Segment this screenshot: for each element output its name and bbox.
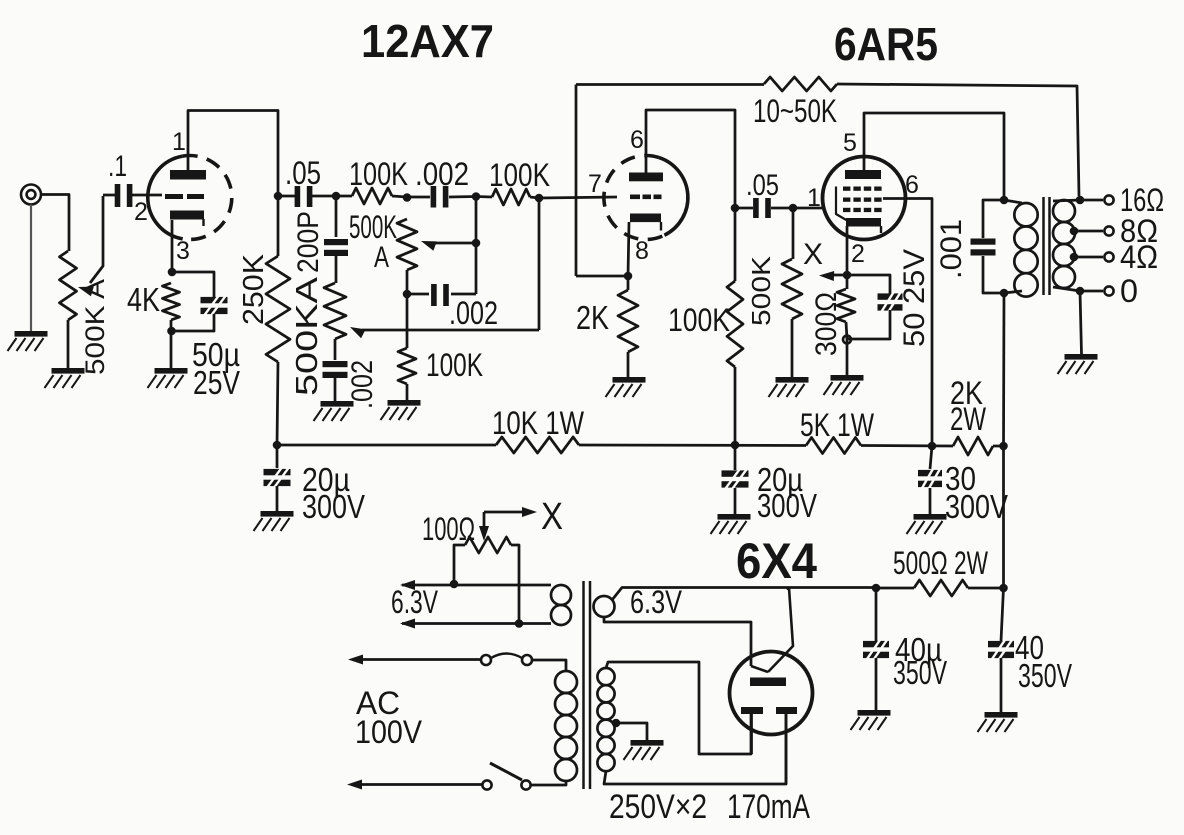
- svg-text:350V: 350V: [1018, 657, 1072, 694]
- svg-text:100Ω: 100Ω: [422, 511, 475, 547]
- tube type label 6AR5: [834, 18, 938, 70]
- svg-text:2K: 2K: [576, 299, 609, 336]
- tube V1a envelope (solid left arc): [148, 156, 183, 239]
- node secondary top 16 ohm: [1076, 196, 1085, 205]
- svg-text:.002: .002: [415, 156, 469, 192]
- label 20u first: [302, 461, 350, 498]
- label 20u second: [757, 461, 803, 498]
- wire jack to volume pot top: [41, 195, 69, 252]
- wiper arrow of 500K A treble: [421, 241, 476, 251]
- ground under 20u first: [254, 511, 294, 531]
- node 4 ohm tap: [1070, 253, 1079, 262]
- svg-text:10~50K: 10~50K: [753, 93, 837, 129]
- pin label 2 V1a: [134, 198, 148, 226]
- svg-text:10K 1W: 10K 1W: [492, 405, 585, 441]
- label 250Vx2: [609, 788, 707, 826]
- label 100K second: [489, 157, 550, 193]
- svg-text:1: 1: [172, 128, 186, 156]
- cathode of V1a: [170, 211, 204, 227]
- capacitor 20u 300V first: [264, 445, 291, 487]
- pin label 8 V1b: [635, 237, 649, 265]
- wire primary bottom down to B+ right: [1002, 293, 1005, 446]
- wire hum pot left leg: [454, 545, 465, 584]
- wire 20u second to ground: [734, 488, 737, 514]
- label 300 ohm vertical: [810, 292, 843, 356]
- wire 16 ohm tap: [1080, 199, 1103, 202]
- svg-text:6: 6: [630, 126, 644, 154]
- switch in AC line: [482, 763, 530, 790]
- tube type label 6X4: [736, 533, 817, 589]
- svg-text:2W: 2W: [950, 401, 987, 437]
- svg-text:7: 7: [588, 170, 602, 198]
- heater winding 6.3V right: [594, 596, 615, 617]
- wire V1b plate up to plate load: [646, 110, 735, 204]
- wire primary bottom to switch: [531, 781, 566, 785]
- label .05 second: [746, 169, 779, 202]
- wire cathode to cap 50u: [172, 272, 214, 297]
- ground under 300 ohm: [824, 375, 864, 395]
- right plate of V3: [776, 707, 797, 714]
- plate of V2: [845, 170, 881, 179]
- resistor 2K 2W: [953, 437, 993, 455]
- node 6.3V bottom: [515, 619, 524, 628]
- label 100K plate load: [668, 302, 730, 338]
- wire cathode to cap 50/25V: [847, 275, 890, 294]
- node B2: [403, 290, 412, 299]
- capacitor .1: [115, 184, 133, 207]
- svg-text:500KA: 500KA: [289, 277, 324, 396]
- label 350V second: [1018, 657, 1072, 694]
- wire rectifier cathode line: [612, 588, 876, 601]
- svg-text:0: 0: [1120, 273, 1138, 309]
- wire volume wiper to cap .1: [103, 194, 116, 197]
- svg-text:6.3V: 6.3V: [630, 584, 683, 620]
- wire switch to AC bottom arrow: [355, 783, 482, 786]
- resistor 500K grid leak: [782, 208, 802, 377]
- svg-text:2: 2: [134, 198, 148, 226]
- wire heater return: [604, 617, 751, 666]
- wire V1b cathode down: [628, 222, 629, 276]
- svg-text:2: 2: [851, 240, 865, 268]
- wire 6.3V top lead: [402, 584, 551, 587]
- node V2 cathode bottom: [843, 336, 851, 344]
- svg-text:100K: 100K: [349, 156, 408, 192]
- wire cap .1 to V1a grid: [131, 194, 162, 197]
- tube V1a envelope (dashed right arc): [183, 156, 232, 240]
- svg-text:3: 3: [176, 237, 190, 265]
- resistor 2K V1b cathode: [618, 276, 638, 377]
- wire 500KA pot to cap .002 lower: [334, 339, 337, 360]
- wire secondary to ground: [1080, 291, 1082, 354]
- wire cap 50/25V to bottom node: [847, 310, 890, 339]
- wire node T4 to V1b grid: [539, 197, 617, 198]
- wire cathode to feedback riser: [576, 275, 628, 278]
- label 300V third: [945, 488, 1008, 525]
- terminal 0: [1104, 286, 1113, 295]
- node HV center tap: [612, 719, 621, 728]
- HV secondary winding 250Vx2: [597, 668, 614, 771]
- label 6.3V left: [391, 584, 438, 620]
- wire node G2 to 6AR5 grid: [793, 207, 824, 210]
- pin label 1 V2: [807, 184, 821, 212]
- AC primary winding: [555, 671, 577, 781]
- node A1 plate of V1a: [274, 192, 283, 201]
- svg-text:500K: 500K: [746, 255, 776, 326]
- label 100K chain B: [426, 347, 483, 383]
- cathode of V1b: [630, 214, 661, 231]
- ground under 500K: [769, 377, 809, 397]
- svg-text:100K: 100K: [426, 347, 483, 383]
- svg-text:8: 8: [635, 237, 649, 265]
- output transformer secondary winding: [1053, 200, 1075, 288]
- label 250K vertical: [238, 253, 270, 325]
- label 10K 1W: [492, 405, 585, 441]
- wire 200P to pot 500KA: [335, 253, 338, 283]
- svg-text:300Ω: 300Ω: [810, 292, 843, 356]
- grid dashes of V1b: [630, 195, 662, 200]
- svg-text:4K: 4K: [127, 281, 160, 318]
- wire 8 ohm tap: [1070, 230, 1103, 233]
- pin label 1 V1a: [172, 128, 186, 156]
- terminal 8 ohm: [1104, 226, 1113, 235]
- svg-text:300V: 300V: [945, 488, 1008, 525]
- label 25V: [193, 364, 240, 401]
- svg-text:300V: 300V: [757, 487, 817, 524]
- svg-text:250K: 250K: [238, 253, 270, 325]
- ground under 40 cap: [978, 712, 1018, 732]
- wire 4 ohm tap: [1070, 256, 1103, 259]
- output transformer primary winding: [1014, 203, 1037, 297]
- svg-text:300V: 300V: [302, 488, 365, 525]
- capacitor 20u 300V second: [722, 445, 749, 489]
- wire V1a cathode down: [171, 220, 174, 272]
- capacitor .05 second: [753, 198, 771, 218]
- label .002 top: [415, 156, 469, 192]
- ground chain B: [381, 400, 421, 420]
- node B+ left: [273, 441, 282, 450]
- wire center tap to ground: [616, 723, 647, 740]
- svg-text:50 25V: 50 25V: [898, 249, 931, 347]
- label 100 ohm: [422, 511, 475, 547]
- resistor 100K treble (top row): [336, 188, 407, 204]
- label 350V first: [893, 654, 947, 691]
- wire 30 cap to ground: [929, 488, 932, 514]
- wire primary bottom stub: [1004, 291, 1022, 293]
- label 2K: [576, 299, 609, 336]
- potentiometer 500K A volume: [60, 251, 77, 320]
- wire node A1 to cap .05: [278, 195, 295, 198]
- label 6.3V right: [630, 584, 683, 620]
- node 6.3V top: [450, 580, 459, 589]
- hum balance arrow X at V2 cathode: [819, 271, 847, 281]
- resistor 100K second (top row): [476, 189, 539, 205]
- arrow 6.3V top: [400, 580, 415, 590]
- label AC 100V: [355, 685, 423, 750]
- node V1b cathode: [624, 272, 633, 281]
- wire secondary bottom to node: [1053, 287, 1080, 291]
- tube V3 6X4 envelope: [730, 652, 813, 735]
- heater winding 6.3V left: [551, 585, 571, 625]
- label 500 ohm 2W: [893, 545, 989, 581]
- label .002 chain A vertical: [346, 360, 379, 409]
- svg-text:6AR5: 6AR5: [834, 18, 938, 70]
- wire node B2 to cap .002 B: [407, 293, 429, 296]
- ground under 30 cap: [907, 514, 947, 534]
- output transformer core: [1044, 197, 1050, 295]
- wire V1a plate to node A1: [188, 111, 278, 193]
- cathode of V2: [846, 218, 881, 233]
- svg-text:500K: 500K: [349, 209, 397, 245]
- resistor 4K: [163, 283, 180, 320]
- node primary top: [1000, 196, 1009, 205]
- resistor 300 ohm: [837, 275, 855, 339]
- ground under volume pot: [45, 368, 85, 388]
- node .05 tap on plate line: [731, 204, 740, 213]
- node T1: [332, 192, 341, 201]
- label 170mA: [727, 788, 810, 826]
- label 40: [1015, 629, 1044, 666]
- wire primary top stub: [1004, 200, 1022, 203]
- tube V1b envelope (solid right arc): [659, 158, 688, 236]
- wire V2 cathode down: [846, 226, 849, 275]
- capacitor .002 chain B: [431, 284, 449, 306]
- node primary bottom: [1000, 289, 1009, 298]
- wire fuse to primary: [532, 660, 566, 671]
- arrow AC top: [348, 655, 363, 665]
- tube V1b envelope (dashed left arc): [604, 156, 665, 240]
- wire B+ rail to screen node: [861, 444, 953, 447]
- svg-text:350V: 350V: [893, 654, 947, 691]
- node B+ mid: [731, 441, 740, 450]
- power transformer core: [584, 581, 591, 789]
- svg-text:170mA: 170mA: [727, 788, 810, 826]
- label 200P vertical: [292, 211, 325, 273]
- node wiper tap on T3 line: [472, 239, 481, 248]
- capacitor 50 25V electrolytic: [878, 292, 903, 311]
- svg-text:500Ω 2W: 500Ω 2W: [893, 545, 989, 581]
- label .05: [285, 155, 321, 191]
- label 50u: [192, 336, 240, 373]
- label X at V2 cathode: [803, 238, 823, 271]
- wire node T2 to cap .002: [407, 196, 430, 199]
- label 300V first: [302, 488, 365, 525]
- grid dashes of V2 (3 rows): [843, 187, 882, 213]
- wire 20u first to ground: [276, 486, 279, 511]
- svg-text:6X4: 6X4: [736, 533, 817, 589]
- potentiometer 500K A treble: [397, 219, 417, 270]
- node T3: [472, 192, 481, 201]
- svg-text:1: 1: [807, 184, 821, 212]
- ground under 2K: [606, 377, 646, 397]
- wire cap .05b to node G2: [771, 207, 793, 210]
- wiper of hum pot: [479, 507, 537, 541]
- svg-text:100V: 100V: [355, 714, 423, 750]
- capacitor .002 top row: [431, 186, 449, 208]
- wire cap 50u to bottom node: [172, 314, 215, 331]
- svg-text:12AX7: 12AX7: [361, 15, 494, 67]
- svg-text:200P: 200P: [292, 211, 325, 273]
- svg-text:4Ω: 4Ω: [1120, 239, 1158, 275]
- resistor 5K 1W: [806, 438, 861, 454]
- ground under 40u: [851, 710, 891, 730]
- potentiometer 100 ohm hum balance: [465, 537, 511, 553]
- svg-text:6.3V: 6.3V: [391, 584, 438, 620]
- ground under secondary: [1058, 354, 1098, 374]
- wire 40 cap to ground: [1000, 658, 1003, 712]
- label A (chain B): [374, 241, 389, 274]
- label 500K A vertical: [80, 279, 110, 375]
- wire 40u to ground: [875, 658, 878, 710]
- wire bottom node to ground: [846, 339, 849, 375]
- terminal 4 ohm: [1104, 252, 1113, 261]
- label .1: [108, 150, 127, 183]
- svg-text:500K A: 500K A: [80, 279, 110, 375]
- ground at HV center tap: [624, 740, 664, 760]
- label .002 chain B: [449, 295, 498, 331]
- svg-text:5: 5: [843, 129, 857, 157]
- wire feedback riser up: [575, 85, 578, 277]
- resistor 10~50K feedback: [576, 77, 837, 91]
- label 8 ohm: [1120, 213, 1158, 249]
- pin label 5 V2: [843, 129, 857, 157]
- resistor 250K plate load: [266, 196, 290, 445]
- wire secondary top to node: [1053, 200, 1080, 201]
- left plate of V3: [741, 707, 763, 714]
- svg-text:6: 6: [905, 171, 919, 199]
- svg-text:.001: .001: [935, 219, 968, 279]
- potentiometer 500KA bass: [324, 283, 346, 339]
- pin label 7 V1b: [588, 170, 602, 198]
- wire B+ right node down: [1002, 446, 1005, 588]
- svg-text:.05: .05: [746, 169, 779, 202]
- svg-text:A: A: [374, 241, 389, 274]
- capacitor .05 coupling: [295, 186, 313, 207]
- capacitor .001 across primary: [971, 200, 1005, 293]
- wire AC top lead: [356, 658, 481, 661]
- label .001 vertical: [935, 219, 968, 279]
- wire 0 tap: [1080, 290, 1103, 293]
- label 40u: [895, 631, 942, 668]
- svg-text:5K 1W: 5K 1W: [800, 407, 875, 443]
- ground under 20u second: [711, 514, 751, 534]
- svg-text:100K: 100K: [489, 157, 550, 193]
- label 50 25V vertical: [898, 249, 931, 347]
- wire 6.3V bottom lead: [402, 622, 551, 625]
- label 4K: [127, 281, 160, 318]
- svg-text:X: X: [541, 496, 563, 538]
- wire 100K chain B to ground: [406, 384, 409, 400]
- node B+ cap right: [999, 584, 1008, 593]
- wire node T1 down to 200P: [335, 196, 338, 237]
- wire HV bottom to 6X4 right plate: [604, 714, 786, 784]
- wire B+ rail mid segment: [579, 444, 806, 447]
- capacitor 200P: [324, 239, 348, 256]
- label 4 ohm: [1120, 239, 1158, 275]
- fuse in AC line: [481, 654, 532, 666]
- wire HV top to 6X4 left plate: [606, 662, 751, 754]
- node V2 cathode: [843, 271, 852, 280]
- node B+ screen: [928, 442, 937, 451]
- wiper of volume pot with arrow: [78, 196, 103, 296]
- node V1a cathode top: [168, 268, 177, 277]
- svg-text:100K: 100K: [668, 302, 730, 338]
- node V1a cathode bottom: [167, 327, 176, 336]
- tube V2 6AR5 envelope: [823, 157, 906, 240]
- node 8 ohm tap: [1070, 227, 1079, 236]
- svg-text:.05: .05: [285, 155, 321, 191]
- wire hum pot right leg: [511, 545, 519, 624]
- wire 4K to ground: [170, 320, 173, 368]
- wire cap .002 to node T3: [449, 195, 476, 198]
- node B+ right: [999, 442, 1008, 451]
- pin label 2 V2: [851, 240, 865, 268]
- wire jack to ground: [30, 205, 32, 332]
- label 500KA vertical: [289, 277, 324, 396]
- wire feedback to output tap: [837, 84, 1079, 196]
- wire V2 screen to B+ rail: [883, 199, 932, 447]
- label 500K vertical: [746, 255, 776, 326]
- input jack J1: [21, 185, 41, 205]
- label 2K 2W: [950, 375, 987, 437]
- label 100K first: [349, 156, 408, 192]
- node T4 grid of V1b: [535, 194, 544, 203]
- pin label 3 V1a: [176, 237, 190, 265]
- wire B+ rail left segment: [277, 444, 496, 447]
- resistor 10K 1W: [496, 437, 579, 453]
- label X at hum pot: [541, 496, 563, 538]
- plate of V1a: [170, 170, 206, 180]
- wire wiper bus up to node T4: [538, 198, 541, 330]
- label 30: [945, 460, 976, 497]
- ground under 4K: [148, 368, 188, 388]
- label 500K (chain B): [349, 209, 397, 245]
- wire 2K 2W to B+ right node: [993, 445, 1004, 448]
- resistor 500 ohm 2W: [876, 580, 1004, 596]
- arrow AC bottom: [347, 780, 362, 790]
- heater V of V3: [751, 588, 793, 672]
- svg-text:X: X: [803, 238, 823, 271]
- terminal 16 ohm: [1104, 195, 1113, 204]
- capacitor 50u 25V electrolytic: [201, 296, 228, 315]
- grid side bracket of V2: [836, 187, 848, 222]
- label 0: [1120, 273, 1138, 309]
- wire pot to node B2: [406, 270, 409, 294]
- capacitor .002 chain A: [323, 361, 348, 378]
- svg-text:250V×2: 250V×2: [609, 788, 707, 826]
- resistor 100K V1b plate load: [727, 204, 743, 445]
- node T2: [403, 193, 412, 202]
- wiper arrow of 500KA bass: [350, 327, 539, 338]
- wire plate node to cap .05b: [735, 207, 753, 210]
- wire cap .002 B to T3 line: [451, 293, 476, 296]
- wire V3 right plate lead: [785, 714, 788, 784]
- svg-text:.1: .1: [108, 150, 127, 183]
- ground at input jack: [8, 331, 48, 351]
- grid dashes of V1a: [165, 194, 204, 199]
- wire T3 down to .002 branch: [475, 197, 478, 295]
- pin label 6 V1b: [630, 126, 644, 154]
- arrow 6.3V bottom: [400, 619, 415, 629]
- svg-text:25V: 25V: [193, 364, 240, 401]
- pin label 6 V2: [905, 171, 919, 199]
- wire V3 left plate lead: [750, 714, 753, 754]
- resistor 100K chain B: [398, 294, 416, 384]
- wire cap .05 to node T1: [312, 195, 336, 198]
- wire V2 plate to output transformer: [864, 113, 1004, 200]
- node G2 grid of 6AR5: [789, 204, 798, 213]
- cathode of V3: [750, 678, 786, 687]
- wire .002 chain A to ground: [334, 375, 337, 401]
